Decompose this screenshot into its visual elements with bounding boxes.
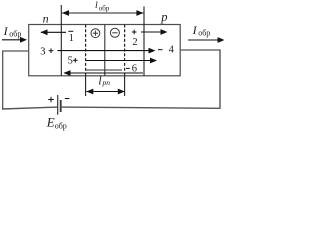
svg-text:2: 2 bbox=[132, 37, 137, 48]
svg-text:E: E bbox=[46, 115, 55, 130]
battery long plate (+) bbox=[57, 95, 59, 115]
svg-text:l: l bbox=[98, 75, 101, 87]
svg-text:5: 5 bbox=[68, 56, 73, 67]
wire left vertical bbox=[2, 50, 4, 109]
svg-text:обр: обр bbox=[198, 28, 210, 37]
dimension l_pn left arrowhead bbox=[86, 89, 93, 95]
carrier 1 arrow (electron drifting left into n) bbox=[41, 31, 66, 33]
current arrow I_obr right bbox=[188, 39, 219, 41]
equilibrium depletion boundary left (dashed) bbox=[85, 25, 87, 77]
dimension l_pn right arrowhead bbox=[118, 89, 125, 95]
label +2 (hole) bbox=[132, 31, 137, 33]
dimension tick left (solid below box) bbox=[85, 76, 87, 96]
carrier 2 arrow (hole drifting right into p) bbox=[141, 31, 162, 33]
wire left terminal bbox=[3, 50, 29, 52]
svg-text:3: 3 bbox=[40, 46, 45, 57]
wire right terminal bbox=[180, 49, 220, 51]
depletion boundary (reverse bias, left) bbox=[60, 5, 62, 76]
carrier 3-4 arrow (hole crossing junction to right) bbox=[58, 50, 151, 52]
wire bottom right bbox=[61, 107, 220, 108]
semiconductor body rectangle bbox=[29, 25, 181, 76]
minus sign before 4 bbox=[158, 49, 163, 51]
svg-text:1: 1 bbox=[69, 33, 74, 44]
svg-text:обр: обр bbox=[9, 29, 21, 38]
wire bottom left bbox=[2, 107, 58, 109]
svg-text:n: n bbox=[43, 11, 49, 25]
svg-text:pn: pn bbox=[102, 78, 111, 87]
dimension tick right (solid below box) bbox=[124, 76, 126, 96]
carrier 5 arrow (hole drifting right) bbox=[86, 60, 152, 62]
dimension l_obr left arrowhead bbox=[62, 10, 69, 16]
minus sign before 6 bbox=[126, 67, 130, 69]
svg-text:l: l bbox=[95, 0, 98, 11]
svg-text:обр: обр bbox=[99, 4, 110, 12]
wire right vertical bbox=[219, 50, 221, 109]
dimension l_obr line bbox=[62, 12, 143, 14]
battery - label bbox=[65, 98, 70, 100]
dimension l_pn line bbox=[86, 91, 125, 93]
carrier 6 arrow (electron drifting left) bbox=[64, 72, 143, 74]
svg-text:обр: обр bbox=[55, 121, 67, 130]
depletion boundary (reverse bias, right) bbox=[143, 7, 145, 77]
equilibrium depletion boundary right (dashed) bbox=[124, 25, 126, 77]
metallurgical junction line bbox=[104, 25, 106, 77]
battery + label bbox=[48, 99, 54, 101]
negative ion circle bbox=[110, 28, 119, 37]
current arrow I_obr left bbox=[2, 39, 22, 41]
battery short plate (-) bbox=[60, 100, 62, 112]
dimension l_obr right arrowhead bbox=[136, 10, 143, 16]
carrier 6 path line bbox=[86, 69, 122, 71]
positive ion circle bbox=[91, 29, 100, 38]
svg-text:p: p bbox=[160, 10, 167, 24]
svg-text:4: 4 bbox=[169, 45, 175, 56]
